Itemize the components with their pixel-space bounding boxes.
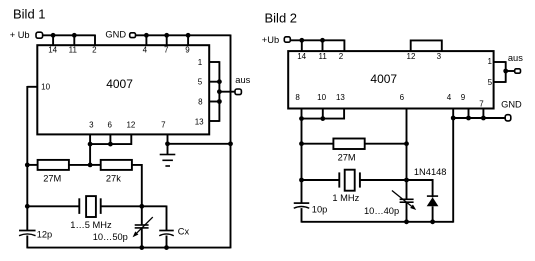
junction Cx/rail xyxy=(164,245,169,250)
label 1...5 MHz xyxy=(70,220,112,230)
svg-text:27M: 27M xyxy=(338,152,356,162)
svg-text:12p: 12p xyxy=(37,229,53,239)
wire left bus (Bild 1) xyxy=(26,86,28,230)
svg-text:10: 10 xyxy=(317,93,326,102)
svg-text:9: 9 xyxy=(461,93,466,102)
svg-text:Bild 1: Bild 1 xyxy=(13,7,46,22)
pin 14 label xyxy=(48,46,57,55)
svg-text:6: 6 xyxy=(107,120,112,129)
junction +Ub/pin11 xyxy=(72,33,77,38)
wire pin8 stub (right) xyxy=(209,101,219,103)
svg-text:GND: GND xyxy=(105,29,126,39)
wire GND rail (Bild 1) xyxy=(136,34,231,36)
wire 27M left lead (Bild 2) xyxy=(302,143,334,145)
wire pin10 stub (Bild 2) xyxy=(322,109,324,119)
wire pin4 drop to rail xyxy=(452,118,454,223)
wire aus lead (Bild 1) xyxy=(219,91,235,93)
trimmer arrow (Bild 2) xyxy=(392,191,416,211)
svg-text:11: 11 xyxy=(319,52,328,61)
svg-text:4007: 4007 xyxy=(370,72,397,86)
pin 2 label xyxy=(92,46,97,55)
wire diode top lead xyxy=(407,180,433,197)
svg-text:10…50p: 10…50p xyxy=(93,232,128,242)
svg-text:Bild 2: Bild 2 xyxy=(265,11,298,26)
svg-text:Cx: Cx xyxy=(178,226,190,236)
terminal GND (Bild 2) xyxy=(505,115,511,121)
junction pin10 node xyxy=(320,116,325,121)
ground symbol (Bild 1) xyxy=(160,155,176,167)
terminal GND (Bild 1) xyxy=(130,33,136,38)
pin 7 label (Bild 2) xyxy=(479,100,484,109)
junction right bus/gnd xyxy=(228,141,233,146)
svg-text:5: 5 xyxy=(488,78,493,87)
wire pin11 stub xyxy=(73,35,75,46)
svg-text:1N4148: 1N4148 xyxy=(414,167,447,177)
capacitor C1 12p xyxy=(19,231,36,236)
junction pin8 node xyxy=(299,116,304,121)
junction GND/pin4 xyxy=(144,33,149,38)
pin 13 label (Bild 2) xyxy=(336,93,345,102)
svg-text:9: 9 xyxy=(185,46,190,55)
junction pin7/gnd xyxy=(165,141,170,146)
label 12p xyxy=(37,229,53,239)
svg-text:aus: aus xyxy=(508,53,523,63)
svg-text:27k: 27k xyxy=(106,173,121,183)
svg-text:10…40p: 10…40p xyxy=(364,206,399,216)
junction GND/pin4 (Bild 2) xyxy=(451,116,456,121)
wire 12p bottom lead xyxy=(26,236,28,249)
ic U1 4007 body xyxy=(37,45,209,134)
pin 11 label (Bild 2) xyxy=(319,52,328,61)
wire pin3 stub xyxy=(89,134,91,144)
wire aus bus (Bild 2) xyxy=(505,61,507,83)
wire pin13 stub (Bild 2) xyxy=(301,109,344,119)
svg-text:12: 12 xyxy=(126,120,135,129)
wire pin1 stub (right) xyxy=(209,61,219,63)
terminal aus (Bild 2) xyxy=(515,69,521,73)
pin 13 label xyxy=(195,118,204,127)
pin 7 label (bottom) xyxy=(161,120,166,129)
svg-text:2: 2 xyxy=(92,46,97,55)
wire crystal lead right (Bild 2) xyxy=(360,179,407,181)
svg-text:4007: 4007 xyxy=(106,77,133,91)
wire right bus (Bild 1) xyxy=(230,35,232,249)
wire pin4 stub (Bild 2) xyxy=(452,109,454,119)
svg-text:8: 8 xyxy=(198,97,203,106)
svg-text:5: 5 xyxy=(198,78,203,87)
wire crystal lead left (Bild 2) xyxy=(302,179,340,181)
junction GND/pin7 (Bild 2) xyxy=(481,116,486,121)
junction GND/pin9 (Bild 2) xyxy=(466,116,471,121)
wire 10p bottom lead xyxy=(301,208,303,223)
pin 9 label (Bild 2) xyxy=(461,93,466,102)
pin 6 label xyxy=(107,120,112,129)
junction crystal/mid bus xyxy=(404,178,409,183)
svg-text:4: 4 xyxy=(447,93,452,102)
junction pin3 node xyxy=(88,142,93,147)
label GND (Bild 1) xyxy=(105,29,126,39)
wire bottom rail (Bild 1) xyxy=(27,247,230,249)
pin 10 label (Bild 2) xyxy=(317,93,326,102)
junction aus/pin8 xyxy=(217,99,222,104)
svg-text:6: 6 xyxy=(400,93,405,102)
junction aus/pin5 xyxy=(217,79,222,84)
label Cx xyxy=(178,226,190,236)
label +Ub (Bild 1) xyxy=(10,30,30,40)
pin 6 label (Bild 2) xyxy=(400,93,405,102)
svg-text:11: 11 xyxy=(69,46,78,55)
trimmer capacitor C5 10...40p plates xyxy=(400,199,414,202)
trimmer capacitor C2 10...50p plates xyxy=(135,225,149,228)
wire crystal lead right (Bild 1) xyxy=(101,205,167,207)
svg-text:10: 10 xyxy=(41,82,50,91)
wire pin5 stub (right) xyxy=(209,81,219,83)
wire pin12-pin3 bridge xyxy=(411,40,442,51)
junction left/27M (Bild 2) xyxy=(299,141,304,146)
svg-text:3: 3 xyxy=(437,52,442,61)
label 27k xyxy=(106,173,121,183)
svg-text:14: 14 xyxy=(297,52,306,61)
label 27M (Bild 1) xyxy=(43,173,61,183)
label 1N4148 xyxy=(414,167,447,177)
label 10...40p xyxy=(364,206,399,216)
wire pin5 stub (Bild 2) xyxy=(494,81,506,83)
terminal +Ub (Bild 2) xyxy=(284,37,290,42)
svg-text:8: 8 xyxy=(295,93,300,102)
wire bottom rail (Bild 2) xyxy=(302,221,454,223)
wire pin13 stub (right) xyxy=(209,120,219,122)
label aus (Bild 2) xyxy=(508,53,523,63)
heading Bild 1 xyxy=(13,7,46,22)
svg-text:7: 7 xyxy=(164,46,169,55)
svg-text:1: 1 xyxy=(487,57,492,66)
wire diode bottom lead xyxy=(432,206,434,222)
svg-text:27M: 27M xyxy=(43,173,61,183)
junction left/crystal (Bild 2) xyxy=(299,178,304,183)
diode D1 1N4148 xyxy=(427,196,439,206)
pin 9 label xyxy=(185,46,190,55)
pin 5 label (Bild 2) xyxy=(488,78,493,87)
ic U2 4007 body xyxy=(288,51,493,108)
wire trimmer bottom lead xyxy=(141,228,143,248)
pin 11 label xyxy=(69,46,78,55)
label aus (Bild 1) xyxy=(235,75,250,85)
wire pin3 drop xyxy=(89,144,91,166)
junction crystal/trimmer xyxy=(139,204,144,209)
junction left/27M xyxy=(25,163,30,168)
terminal aus (Bild 1) xyxy=(235,89,241,95)
wire +Ub rail (Bild 1) xyxy=(43,34,95,36)
wire 27M right lead xyxy=(69,164,90,166)
wire pin14 stub (Bild 2) xyxy=(301,40,303,51)
wire 27M right lead (Bild 2) xyxy=(365,143,407,145)
resistor R3 27M body xyxy=(333,139,364,150)
svg-text:2: 2 xyxy=(339,52,344,61)
wire pin2 drop xyxy=(94,35,96,46)
pin 1 label (Bild 2) xyxy=(487,57,492,66)
pin 12 label xyxy=(126,120,135,129)
wire 27k right lead xyxy=(132,165,142,225)
junction diode/rail xyxy=(430,219,435,224)
capacitor C3 Cx xyxy=(159,231,174,236)
pin 8 label xyxy=(198,97,203,106)
resistor R2 27k body xyxy=(101,160,132,170)
label 4007 (Bild 2) xyxy=(370,72,397,86)
junction GND/pin9 xyxy=(186,33,191,38)
wire pin9 stub (Bild 2) xyxy=(468,109,470,119)
svg-text:+ Ub: + Ub xyxy=(10,30,30,40)
pin 7 label (top) xyxy=(164,46,169,55)
pin 5 label xyxy=(198,78,203,87)
wire pin7 stub (top) xyxy=(166,35,168,46)
svg-text:7: 7 xyxy=(479,100,484,109)
wire pin8 stub (Bild 2) xyxy=(301,109,303,119)
wire Cx top lead xyxy=(166,206,168,231)
wire pin14 stub xyxy=(52,35,54,46)
svg-text:13: 13 xyxy=(195,118,204,127)
wire pin2 drop (Bild 2) xyxy=(343,40,345,52)
junction left/crystal xyxy=(25,204,30,209)
wire pin4 stub xyxy=(145,35,147,46)
pin 4 label xyxy=(143,46,148,55)
crystal Q2 1MHz xyxy=(339,170,360,191)
label 4007 (Bild 1) xyxy=(106,77,133,91)
junction +Ub/pin11 (Bild 2) xyxy=(320,38,325,43)
wire +Ub rail (Bild 2) xyxy=(291,39,345,41)
wire aus lead (Bild 2) xyxy=(506,70,515,72)
junction trimmer/rail xyxy=(139,245,144,250)
label 10p xyxy=(312,205,328,215)
capacitor C4 10p xyxy=(294,203,310,208)
pin 8 label (Bild 2) xyxy=(295,93,300,102)
pin 3 label xyxy=(89,120,94,129)
svg-text:12: 12 xyxy=(407,52,416,61)
pin 3 label (Bild 2) xyxy=(437,52,442,61)
label GND (Bild 2) xyxy=(501,100,522,110)
label +Ub (Bild 2) xyxy=(262,35,279,45)
svg-text:10p: 10p xyxy=(312,205,328,215)
pin 4 label (Bild 2) xyxy=(447,93,452,102)
junction aus tap (Bild 2) xyxy=(503,69,508,74)
junction 27M/mid bus xyxy=(404,141,409,146)
wire pin10 lead xyxy=(27,86,37,88)
svg-text:aus: aus xyxy=(235,75,250,85)
svg-text:4: 4 xyxy=(143,46,148,55)
pin 10 label xyxy=(41,82,50,91)
svg-text:13: 13 xyxy=(336,93,345,102)
svg-text:GND: GND xyxy=(501,100,522,110)
wire left bus (Bild 2) xyxy=(301,119,303,204)
pin 1 label xyxy=(198,58,203,67)
label 27M (Bild 2) xyxy=(338,152,356,162)
junction +Ub/pin14 xyxy=(51,33,56,38)
wire pin7 to right bus xyxy=(168,143,231,145)
wire pin6 stub / mid bus xyxy=(406,109,408,200)
trimmer arrow (Bild 1) xyxy=(133,217,153,237)
junction +Ub/pin14 (Bild 2) xyxy=(299,38,304,43)
heading Bild 2 xyxy=(265,11,298,26)
svg-text:1: 1 xyxy=(198,58,203,67)
label 1 MHz xyxy=(332,193,359,203)
wire trimmer bottom lead (Bild 2) xyxy=(406,202,408,222)
pin 14 label (Bild 2) xyxy=(297,52,306,61)
junction trimmer/rail (Bild 2) xyxy=(404,219,409,224)
wire aus bus (Bild 1) xyxy=(218,61,220,122)
wire pin12 stub xyxy=(89,134,131,144)
terminal +Ub (Bild 1) xyxy=(36,32,43,38)
wire pin7 stub (Bild 2) xyxy=(482,109,484,119)
svg-text:1…5 MHz: 1…5 MHz xyxy=(70,220,112,230)
wire 27M left lead xyxy=(27,164,37,166)
pin 12 label (Bild 2) xyxy=(407,52,416,61)
junction pin6 node xyxy=(108,142,113,147)
svg-text:7: 7 xyxy=(161,120,166,129)
wire pin6 stub xyxy=(109,134,111,144)
crystal Q1 1...5MHz xyxy=(79,196,100,217)
wire GND lead (Bild 2) xyxy=(453,117,504,119)
svg-text:14: 14 xyxy=(48,46,57,55)
wire 27k left lead xyxy=(90,164,101,166)
resistor R1 27M body xyxy=(38,160,69,170)
svg-text:1 MHz: 1 MHz xyxy=(332,193,359,203)
wire pin11 stub (Bild 2) xyxy=(322,40,324,51)
junction aus tap xyxy=(217,89,222,94)
pin 2 label (Bild 2) xyxy=(339,52,344,61)
wire pin1 stub (Bild 2) xyxy=(494,61,506,63)
wire pin9 stub xyxy=(187,35,189,46)
svg-text:+Ub: +Ub xyxy=(262,35,279,45)
wire pin7 stub (bottom) xyxy=(167,134,169,154)
wire Cx bottom lead xyxy=(166,236,168,248)
junction 27M/27k/pin3 xyxy=(88,163,93,168)
svg-text:3: 3 xyxy=(89,120,94,129)
label 10...50p xyxy=(93,232,128,242)
wire crystal lead left (Bild 1) xyxy=(27,205,79,207)
junction GND/pin7 xyxy=(164,33,169,38)
